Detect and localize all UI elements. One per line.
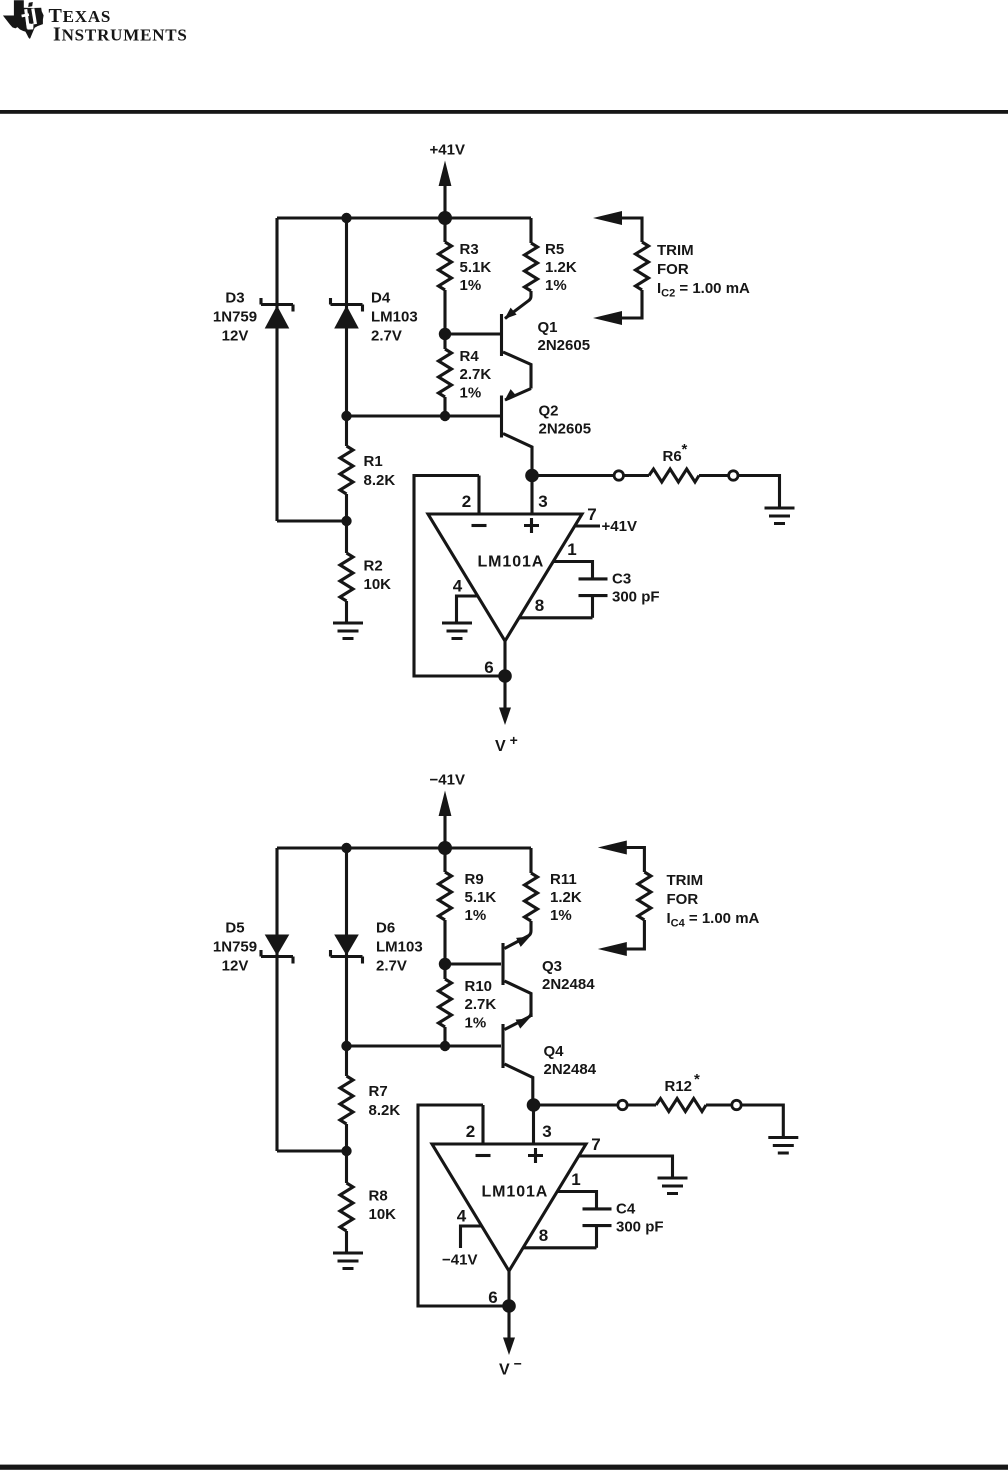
transistor Q1 emitter [505,291,531,319]
transistor Q2 collector [503,434,532,471]
junction dot top bus left [341,213,351,223]
pin 1 wire [553,562,592,578]
svg-text:R10: R10 [465,978,493,995]
resistor R8 [340,1183,353,1231]
bottom horizontal rule [0,1465,1008,1470]
junction dot top bus supply [438,211,452,225]
svg-text:2N2484: 2N2484 [544,1061,597,1078]
capacitor C4 bottom plate [583,1224,612,1227]
junction dot Q2 collector output node [525,469,539,483]
wire R9 bottom lead [443,920,446,964]
svg-text:LM101A: LM101A [482,1184,549,1201]
pin 1 wire [557,1192,596,1208]
pin 6 wire [507,1271,510,1306]
svg-text:R2: R2 [364,558,383,575]
top horizontal rule [0,110,1008,114]
wire top bus node −41V [277,846,531,849]
ground at R12 output [768,1138,798,1154]
wire R1 top lead [345,416,348,446]
terminal circle right of R12 [732,1100,741,1109]
terminal circle right of R6 [729,471,738,480]
resistor R12 (horizontal) [656,1099,706,1112]
trim wire [626,848,645,950]
svg-text:*: * [694,1071,700,1088]
svg-text:6: 6 [484,658,493,677]
svg-text:Q2: Q2 [539,403,559,420]
trim resistor [636,242,649,290]
pin 2 wire [481,1105,484,1144]
svg-text:D4: D4 [371,290,391,307]
junction dot R9/R10 node [439,958,451,970]
svg-text:R11: R11 [550,871,577,888]
svg-text:+41V: +41V [430,142,465,159]
wire D5 bottom to divider [277,1149,347,1152]
resistor R9 [439,872,452,920]
wire output node to R12 [534,1103,619,1106]
wire top bus node +41V [277,216,531,219]
svg-text:2.7V: 2.7V [371,328,402,345]
pin 7 wire to ground [579,1156,673,1177]
svg-text:8.2K: 8.2K [369,1102,401,1119]
junction dot R1/R2/D3 node [341,516,351,526]
svg-text:4: 4 [453,577,463,596]
wire R5 top lead [529,218,532,243]
op-amp minus sign [476,1154,491,1157]
svg-text:1%: 1% [545,277,567,294]
svg-text:3: 3 [538,492,547,511]
svg-text:R5: R5 [545,241,564,258]
svg-text:2.7V: 2.7V [376,958,407,975]
wire R3 top lead [443,218,446,242]
svg-text:1.2K: 1.2K [545,259,577,276]
svg-text:R4: R4 [460,348,480,365]
svg-text:TRIM: TRIM [657,242,694,259]
capacitor C4 top plate [583,1207,612,1210]
svg-text:FOR: FOR [657,261,689,278]
wire D6 vertical [345,848,348,1046]
svg-text:12V: 12V [222,328,249,345]
wire R4 leads [443,334,446,416]
supply arrow −41V [443,816,446,848]
transistor Q4 base bar [501,1024,504,1068]
wire D5 anode/cathode vertical [275,848,278,1151]
feedback wire pin2 to pin6 [414,476,505,677]
svg-text:−41V: −41V [430,772,465,789]
svg-text:1N759: 1N759 [213,939,257,956]
resistor R1 [340,446,353,494]
capacitor C3 bottom lead [591,597,594,618]
resistor R5 [525,243,538,291]
svg-text:LM103: LM103 [376,939,423,956]
junction dot bus R10 [440,1041,450,1051]
ground at R6 output [765,508,795,524]
svg-text:6: 6 [488,1288,497,1307]
capacitor C4 bottom lead [595,1227,598,1248]
terminal circle left of R6 [614,471,623,480]
ground at pin 7 [658,1178,688,1194]
svg-text:+41V: +41V [602,518,637,535]
svg-text:1.2K: 1.2K [550,889,582,906]
wire R12 right lead [706,1103,732,1106]
svg-text:4: 4 [457,1207,467,1226]
svg-text:V+: V+ [495,732,519,755]
transistor Q2 base bar [500,396,503,438]
svg-text:Q4: Q4 [544,1043,565,1060]
svg-text:Q3: Q3 [542,958,562,975]
trim arrow lower [593,311,622,325]
wire to R12 left lead [627,1103,656,1106]
transistor Q1 base bar [500,314,503,356]
svg-text:5.1K: 5.1K [460,259,492,276]
junction dot bus D4 [341,411,351,421]
svg-text:D5: D5 [225,920,244,937]
wire output node to R6 [532,474,614,477]
svg-text:10K: 10K [364,576,392,593]
TI logo Texas map mark [3,0,44,39]
pin 3 wire [532,1105,535,1144]
svg-text:12V: 12V [222,958,249,975]
resistor R2 [340,553,353,601]
trim arrow upper [593,211,622,225]
wire node R9/R10 to Q3 base [445,962,501,965]
pin 7 stub wire [575,524,600,527]
supply arrow +41V [443,186,446,218]
svg-text:INSTRUMENTS: INSTRUMENTS [53,24,188,46]
svg-text:1%: 1% [460,385,482,402]
junction dot bus D6 [341,1041,351,1051]
svg-text:R3: R3 [460,241,479,258]
svg-text:7: 7 [591,1135,600,1154]
transistor Q3 base bar [501,943,504,985]
svg-text:1: 1 [567,540,576,559]
trim wire [621,218,642,318]
output arrow down [503,676,506,708]
wire D3 bottom to divider [277,519,347,522]
pin 4 wire [461,1226,482,1248]
svg-text:TRIM: TRIM [667,872,704,889]
trim arrow upper [598,841,627,855]
svg-text:Q1: Q1 [538,319,558,336]
wire R7 top lead [345,1046,348,1076]
wire bus D6/R10/Q4 base [347,1044,502,1047]
svg-text:R12: R12 [665,1078,693,1095]
svg-text:2N2605: 2N2605 [538,337,591,354]
svg-text:R7: R7 [369,1083,388,1100]
pin 6 output junction dot [498,669,512,683]
svg-text:−41V: −41V [442,1252,477,1269]
svg-text:300 pF: 300 pF [616,1219,664,1236]
transistor Q2 emitter arrow (PNP) [505,389,517,400]
svg-text:1%: 1% [465,907,487,924]
wire R7 bottom lead [345,1124,348,1183]
wire R1 bottom lead [345,494,348,553]
svg-text:2N2605: 2N2605 [539,421,592,438]
feedback wire pin2 to pin6 [418,1105,509,1306]
junction dot R3/R4 node [439,328,451,340]
svg-text:2: 2 [462,492,471,511]
svg-text:IC4 = 1.00 mA: IC4 = 1.00 mA [667,910,760,930]
svg-text:R6: R6 [663,448,682,465]
ground at pin 4 [442,623,472,639]
junction dot Q4 collector output node [527,1098,541,1112]
svg-text:8: 8 [539,1226,548,1245]
trim resistor [638,872,651,920]
svg-text:*: * [682,441,688,458]
pin 3 wire [530,476,533,515]
transistor Q4 collector [505,1064,533,1100]
svg-text:10K: 10K [369,1206,397,1223]
svg-text:1%: 1% [550,907,572,924]
svg-text:1%: 1% [460,277,482,294]
resistor R3 [439,242,452,290]
transistor Q2 emitter [505,389,531,401]
svg-text:LM103: LM103 [371,309,418,326]
transistor Q3 emitter [505,921,532,949]
pin 4 wire [457,596,478,622]
op-amp plus sign [528,1148,543,1163]
pin 6 wire [503,641,506,676]
op-amp LM101A triangle [428,514,582,641]
wire bus D4/R4/Q2 base [347,414,502,417]
ground below R8 [333,1253,363,1269]
wire to R6 left lead [624,474,650,477]
svg-text:7: 7 [587,505,596,524]
svg-text:R9: R9 [465,871,484,888]
junction dot bus R4 [440,411,450,421]
svg-text:1N759: 1N759 [213,309,257,326]
wire R3 bottom lead [443,290,446,334]
svg-text:IC2 = 1.00 mA: IC2 = 1.00 mA [657,280,750,300]
svg-text:1%: 1% [465,1015,487,1032]
wire R10 leads [443,964,446,1046]
svg-text:2N2484: 2N2484 [542,976,595,993]
resistor R4 [439,349,452,397]
resistor R6 (horizontal) [649,469,699,482]
pin 8 wire [519,616,592,619]
svg-text:300 pF: 300 pF [612,589,660,606]
wire to output ground [738,476,780,507]
junction dot top bus left [341,843,351,853]
op-amp minus sign [472,524,487,527]
svg-text:C3: C3 [612,571,631,588]
wire R2 bottom lead [345,601,348,623]
pin 8 wire [523,1246,596,1249]
svg-text:FOR: FOR [667,891,699,908]
pin 6 output junction dot [502,1299,516,1313]
junction dot top bus supply [438,841,452,855]
pin 2 wire [477,476,480,515]
transistor Q3 collector [505,981,532,1017]
svg-text:R1: R1 [364,453,383,470]
wire R8 bottom lead [345,1231,348,1253]
capacitor C3 bottom plate [579,594,608,597]
svg-text:2.7K: 2.7K [460,366,492,383]
transistor Q1 emitter arrow (PNP) [505,308,517,319]
resistor R10 [439,979,452,1027]
output arrow down [507,1306,510,1338]
svg-text:8.2K: 8.2K [364,472,396,489]
capacitor C3 top plate [579,577,608,580]
resistor R7 [340,1076,353,1124]
transistor Q4 emitter arrow (NPN) [516,1018,530,1028]
zener diode D6 [331,950,363,964]
ground below R2 [333,623,363,639]
wire to output ground [741,1105,783,1136]
op-amp LM101A triangle [432,1144,586,1271]
wire D4 vertical [345,218,348,416]
transistor Q4 emitter [505,1013,532,1030]
svg-text:C4: C4 [616,1201,636,1218]
trim arrow lower [598,942,627,956]
resistor R11 [525,873,538,921]
svg-text:LM101A: LM101A [478,554,545,571]
wire D3 anode/cathode vertical [275,218,278,521]
svg-text:3: 3 [542,1122,551,1141]
wire R6 right lead [699,474,729,477]
zener diode D3 [261,298,293,312]
svg-text:D6: D6 [376,920,395,937]
wire node R3/R4 to Q1 base [445,332,501,335]
svg-text:1: 1 [571,1170,580,1189]
svg-text:8: 8 [535,596,544,615]
transistor Q1 collector [503,352,531,389]
junction dot R7/R8/D5 node [341,1146,351,1156]
zener diode D5 [261,950,293,964]
svg-text:V−: V− [499,1356,523,1379]
op-amp plus sign [524,518,539,533]
svg-text:2.7K: 2.7K [465,996,497,1013]
svg-text:5.1K: 5.1K [465,889,497,906]
wire R11 top lead [529,848,532,873]
wire R9 top lead [443,848,446,872]
svg-text:D3: D3 [225,290,244,307]
terminal circle left of R12 [618,1100,627,1109]
svg-text:2: 2 [466,1122,475,1141]
svg-text:R8: R8 [369,1188,388,1205]
transistor Q3 emitter arrow (NPN) [516,937,530,947]
zener diode D4 [331,298,363,312]
